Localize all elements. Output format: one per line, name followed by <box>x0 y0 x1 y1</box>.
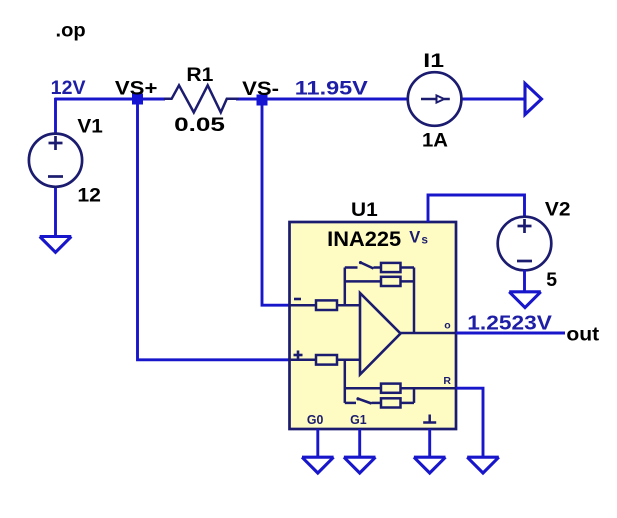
bottom gain network branch 2 with switch and resistor <box>345 397 414 407</box>
value 12 <box>77 185 101 207</box>
value 0.05 <box>174 114 225 136</box>
svg-text:VS+: VS+ <box>115 78 157 100</box>
svg-text:12: 12 <box>77 185 101 207</box>
pin label G1 <box>350 413 367 427</box>
minus input line with resistor <box>290 300 361 310</box>
net label 11.95V annotation <box>295 77 368 99</box>
label R1 <box>186 64 213 86</box>
resistor R1 <box>164 85 239 112</box>
net label VS- <box>242 78 279 100</box>
svg-text:5: 5 <box>546 269 557 291</box>
wire top rail V1 to resistor <box>55 98 166 101</box>
bottom gain network branch 1 (to R pin) with resistor <box>345 384 456 393</box>
top gain network branch 1 with switch and resistor <box>345 261 414 272</box>
svg-text:out: out <box>566 323 599 345</box>
svg-text:VS-: VS- <box>242 78 279 100</box>
op-amp output line to pin o <box>401 332 457 335</box>
pin label Vs <box>409 228 428 246</box>
bottom gain network: left vertical <box>344 360 347 403</box>
svg-text:G1: G1 <box>350 413 367 427</box>
value 1A <box>422 129 448 151</box>
wire Vs pin to V2 top <box>428 195 525 222</box>
top gain network branch 2 with resistor <box>345 277 414 286</box>
svg-text:1.2523V: 1.2523V <box>467 312 552 334</box>
wire VS- down to op-amp minus input <box>262 99 290 305</box>
ground below G0 <box>302 457 334 473</box>
svg-text:1A: 1A <box>422 129 448 151</box>
current source I1 <box>408 72 462 126</box>
wire VS+ down to op-amp plus input <box>138 99 290 360</box>
port arrow (current output) <box>525 84 542 115</box>
wire V1 bottom stub <box>54 186 57 237</box>
label V2 <box>545 199 571 221</box>
wire R pin to ground <box>456 388 483 457</box>
pin label minus <box>294 298 301 301</box>
ground below R pin <box>467 457 499 473</box>
wire G0 pin to ground <box>316 429 319 458</box>
svg-text:V: V <box>409 228 420 246</box>
voltage source V2 <box>498 217 552 271</box>
label I1 <box>423 50 444 72</box>
label U1 <box>351 199 378 221</box>
ground below ground-pin <box>414 457 446 473</box>
top gain network right vertical to output <box>413 268 416 334</box>
wire ground-pin to ground <box>428 429 431 458</box>
voltage source V1 <box>29 134 82 187</box>
wire V2 bottom stub <box>523 270 526 293</box>
wire G1 pin to ground <box>358 429 361 458</box>
ground below G1 <box>344 457 376 473</box>
ground below V2 <box>509 292 541 308</box>
spice directive .op <box>56 20 86 41</box>
net label out <box>566 323 599 345</box>
svg-text:R1: R1 <box>186 64 213 86</box>
pin label ground tack <box>423 415 436 423</box>
pin label plus <box>294 351 303 360</box>
pin label o <box>444 320 450 332</box>
svg-text:I1: I1 <box>423 50 444 72</box>
label V1 <box>77 115 103 137</box>
svg-text:U1: U1 <box>351 199 378 221</box>
svg-text:s: s <box>421 235 428 247</box>
node VS+ junction <box>132 94 143 105</box>
net label VS+ <box>115 78 157 100</box>
svg-text:.op: .op <box>56 20 86 41</box>
node VS- junction <box>257 95 268 106</box>
pin label G0 <box>307 413 324 427</box>
svg-text:0.05: 0.05 <box>174 114 225 136</box>
svg-text:R: R <box>443 375 451 387</box>
svg-text:V1: V1 <box>77 115 103 137</box>
ground below V1 <box>40 237 72 253</box>
top gain network: left vertical <box>344 268 347 306</box>
wire resistor to I1 <box>236 98 408 101</box>
IC U1 INA225 body <box>290 222 457 429</box>
svg-text:INA225: INA225 <box>327 228 401 251</box>
svg-text:G0: G0 <box>307 413 324 427</box>
plus input line with resistor <box>290 355 361 365</box>
label INA225 <box>327 228 401 251</box>
wire V1 top stub <box>54 98 57 134</box>
net label 1.2523V annotation <box>467 312 552 334</box>
svg-text:o: o <box>444 320 450 332</box>
svg-text:11.95V: 11.95V <box>295 77 368 99</box>
value 5 <box>546 269 557 291</box>
wire output o pin to out <box>456 332 565 335</box>
pin label R <box>443 375 451 387</box>
wire I1 to port arrow <box>461 98 525 101</box>
bottom gain network right vertical <box>413 388 416 403</box>
svg-text:12V: 12V <box>51 78 86 99</box>
net label 12V annotation <box>51 78 86 99</box>
op-amp triangle inside U1 <box>360 293 401 375</box>
svg-text:V2: V2 <box>545 199 571 221</box>
